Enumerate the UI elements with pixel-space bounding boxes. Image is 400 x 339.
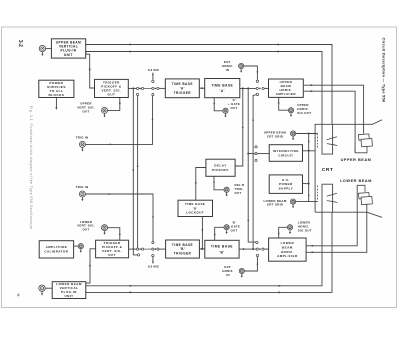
arrowhead	[119, 103, 121, 106]
switch contact source	[152, 87, 154, 89]
arrowhead	[55, 107, 57, 110]
svg-text:LOWER BEAM: LOWER BEAM	[340, 179, 372, 183]
wire delay pickoff to lockout	[196, 168, 206, 201]
wire lower pickoff to switch	[129, 248, 137, 250]
svg-text:OUT: OUT	[108, 253, 116, 257]
CRT lower grid dashed	[317, 186, 319, 202]
wire hv to bus	[303, 183, 309, 185]
arrowhead	[312, 245, 315, 247]
svg-text:OUT: OUT	[235, 191, 242, 195]
wire lower horiz plate 2	[306, 204, 367, 252]
switch contact intensifier	[255, 153, 257, 155]
arrowhead	[202, 87, 205, 89]
block upper beam vertical plug-in unit	[51, 39, 85, 58]
wire 6.3VAC stub upper	[152, 73, 154, 81]
switch contact int lower	[137, 248, 139, 250]
svg-text:TRIGGER: TRIGGER	[174, 252, 192, 256]
arrowhead	[119, 233, 121, 235]
CRT upper electron gun	[358, 134, 369, 140]
svg-text:DELAY: DELAY	[214, 164, 227, 168]
wire A gate out	[214, 98, 223, 111]
wire calibrator to connector	[74, 245, 79, 247]
wire 6.3VAC stub lower	[152, 257, 154, 264]
wire upper horiz plate 2	[303, 91, 355, 153]
arrowhead	[312, 251, 315, 253]
wire switch gap	[139, 87, 142, 89]
switch alt contact line 6.3VAC	[152, 80, 154, 82]
block trigger pickoff lower	[96, 240, 129, 258]
svg-text:TIME BASE: TIME BASE	[211, 245, 233, 249]
svg-text:TIME BASE: TIME BASE	[211, 83, 233, 87]
wire switch to upper horiz amplifier	[264, 87, 268, 89]
svg-text:CRT GRID: CRT GRID	[267, 134, 283, 138]
wire lockout to time base B	[201, 217, 203, 249]
label lower vert sig out	[77, 220, 95, 232]
svg-text:AMPLIFIER: AMPLIFIER	[276, 92, 297, 96]
switch alt contact ext horiz upper	[256, 80, 258, 82]
svg-text:CRT: CRT	[322, 167, 333, 173]
wire switch link lower	[144, 248, 152, 250]
svg-text:AMPLITUDE: AMPLITUDE	[46, 245, 68, 249]
block intensifying circuit	[269, 145, 302, 162]
wire to upper horiz sig out	[279, 97, 289, 110]
svg-text:IN: IN	[226, 68, 230, 72]
label ext horiz in upper	[222, 60, 234, 72]
svg-text:®: ®	[17, 293, 20, 297]
arrowhead	[152, 74, 154, 76]
connector ext horiz in upper	[239, 63, 244, 72]
junction grid bus top	[308, 133, 310, 135]
label upper horiz sig out	[297, 103, 311, 115]
wire switch to lower horiz amplifier	[264, 248, 269, 250]
wire lower pickoff to sig out	[108, 228, 120, 241]
arrowhead	[89, 264, 91, 267]
svg-text:6.3 VAC: 6.3 VAC	[148, 68, 160, 72]
wire time base A to delay pickoff	[235, 88, 243, 166]
wire lower vert signal 1 to CRT	[86, 212, 322, 286]
switch contact horiz lower	[256, 248, 258, 250]
CRT upper grid dashed	[317, 134, 319, 149]
switch alt contact from lower pickoff	[137, 93, 139, 95]
svg-text:Fig. 3-1. Functional block dia: Fig. 3-1. Functional block diagram of th…	[29, 106, 33, 231]
junction sweep B	[252, 248, 254, 250]
arrowhead	[130, 291, 133, 293]
connector ext horiz in lower	[239, 268, 244, 277]
svg-text:INTENSIFYING: INTENSIFYING	[273, 149, 299, 153]
wire switch to intensifying circuit	[257, 153, 269, 155]
wire switch link	[144, 87, 152, 89]
label upper vert sig out	[77, 102, 95, 114]
arrowhead	[278, 232, 280, 234]
arrowhead	[152, 216, 154, 218]
switch contact horiz upper	[256, 87, 258, 89]
arrowhead	[256, 262, 258, 264]
connector cal out	[78, 244, 83, 253]
wire time base B output	[239, 248, 256, 250]
wire sweep A down to lower horiz switch	[248, 88, 255, 242]
svg-text:AMPLIFIER: AMPLIFIER	[277, 254, 298, 258]
svg-text:'A': 'A'	[180, 86, 185, 90]
block delay pickoff	[206, 159, 235, 176]
svg-text:CALIBRATOR: CALIBRATOR	[44, 250, 68, 254]
connector lower beam crt grid	[291, 199, 296, 208]
label lower horiz sig out	[298, 220, 312, 232]
junction to delay pickoff	[242, 87, 244, 89]
block time base B trigger	[166, 240, 200, 258]
svg-text:LOCKOUT: LOCKOUT	[186, 211, 204, 215]
arrowhead	[308, 195, 310, 197]
switch alt contact line lower	[152, 254, 154, 256]
switch alt contact ext trig	[152, 94, 154, 96]
wire B gate out	[215, 227, 224, 240]
wire upper vert signal 1 to CRT	[86, 45, 332, 125]
wire trig in upper riser	[85, 96, 152, 145]
CRT lower horiz plate pair	[357, 185, 365, 192]
wire ext horiz in lower to switch	[244, 257, 257, 271]
block time base B lockout	[178, 200, 213, 216]
wire upper vert signal 2 to CRT	[86, 52, 322, 125]
arrowhead	[201, 229, 203, 231]
connector lower horiz sig out	[287, 225, 292, 234]
switch alt contact from upper pickoff	[137, 254, 139, 256]
junction intensifier bus	[308, 150, 310, 152]
svg-text:SUPPLY: SUPPLY	[279, 186, 294, 190]
block upper beam horiz amplifier	[269, 79, 304, 97]
connector lower plug-in input	[39, 285, 45, 296]
wire plug-in to lower pickoff	[86, 249, 96, 283]
wire connector to plug-in	[46, 48, 52, 50]
arrowhead	[278, 102, 280, 104]
svg-text:OUT: OUT	[230, 106, 237, 110]
CRT lower vertical deflection plates	[322, 184, 333, 212]
wire pickoff to upper vert sig out	[108, 98, 120, 111]
arrowhead	[110, 143, 112, 145]
wire trigger to time base B	[199, 248, 204, 250]
svg-text:TIME BASE: TIME BASE	[172, 243, 193, 247]
arrowhead	[311, 84, 314, 86]
block time base B	[205, 240, 239, 258]
CRT upper plate strokes	[327, 137, 338, 146]
CRT upper horiz plate pair	[355, 146, 367, 153]
wire trig in lower riser	[85, 194, 153, 241]
connector upper horiz sig out	[288, 108, 293, 117]
arrowhead	[308, 140, 310, 142]
block time base A	[205, 79, 240, 98]
svg-text:UPPER BEAM: UPPER BEAM	[341, 158, 372, 162]
CRT lower plate strokes	[327, 193, 338, 202]
label B gate out	[228, 220, 240, 232]
wire crossover upper pickoff to lower switch	[133, 88, 137, 255]
svg-text:PICKOFF: PICKOFF	[212, 168, 229, 172]
arrowhead	[109, 193, 111, 195]
svg-text:CIRCUIT: CIRCUIT	[278, 153, 293, 157]
svg-text:SIG OUT: SIG OUT	[298, 228, 312, 232]
svg-text:CRT GRID: CRT GRID	[267, 203, 283, 207]
connector A gate out	[223, 108, 228, 117]
label ext horiz in lower	[222, 265, 234, 277]
arrowhead	[279, 291, 282, 293]
wire time base A output	[240, 87, 256, 89]
svg-text:TIME BASE: TIME BASE	[172, 82, 193, 86]
wire crt grid bus	[308, 134, 310, 202]
arrowhead	[214, 233, 216, 235]
svg-text:TRIGGER: TRIGGER	[174, 91, 192, 95]
svg-text:OUT: OUT	[82, 228, 89, 232]
svg-text:UNIT: UNIT	[65, 294, 74, 298]
connector trig in lower	[79, 191, 85, 201]
switch alt contact ext trig lower	[152, 242, 154, 244]
arrowhead	[247, 220, 249, 222]
wire intensifying circuit to CRT	[303, 150, 316, 152]
svg-text:TRIG IN: TRIG IN	[76, 185, 89, 189]
wire lower vert signal 2 to CRT	[86, 212, 332, 292]
CRT upper vertical deflection plates	[322, 124, 333, 154]
junction lockout trigger	[201, 248, 203, 250]
block time base A trigger	[165, 79, 199, 98]
arrowhead	[89, 69, 91, 72]
arrowhead	[137, 164, 139, 166]
arrowhead	[130, 43, 133, 45]
connector upper beam crt grid	[291, 131, 296, 140]
label lower beam crt grid	[263, 199, 286, 207]
wire trigger to time base A	[199, 87, 204, 89]
wire lower horiz plate 1	[306, 185, 357, 246]
svg-text:BLOCKS: BLOCKS	[49, 93, 65, 97]
connector upper plug-in input	[39, 45, 45, 56]
arrowhead	[201, 248, 204, 250]
label A gate out	[228, 98, 240, 110]
wire upper grid to CRT	[296, 133, 318, 135]
arrowhead	[279, 285, 282, 287]
label upper beam crt grid	[264, 131, 287, 139]
switch contact source lower	[152, 248, 154, 250]
wire sweep to intensifier switch	[248, 153, 255, 155]
label trig in lower	[76, 185, 89, 189]
switch alt contact ext horiz lower	[256, 254, 258, 256]
connector B gate out	[224, 225, 229, 234]
svg-text:3-2: 3-2	[17, 40, 23, 47]
CRT envelope	[315, 120, 382, 218]
wire upper horiz plate 1	[303, 85, 363, 134]
svg-text:6.3 VAC: 6.3 VAC	[148, 264, 160, 268]
label delayed trig out	[235, 183, 245, 195]
svg-text:'B': 'B'	[180, 247, 185, 251]
wire to lower horiz sig out	[279, 227, 288, 238]
connector trig in upper	[79, 141, 85, 151]
block trigger pickoff upper	[95, 79, 129, 97]
svg-text:Circuit Description — Type 556: Circuit Description — Type 556	[382, 38, 387, 103]
wire delayed trigger out	[214, 176, 224, 190]
arrowhead	[152, 118, 154, 120]
wire power supplies output	[55, 98, 57, 108]
wire sweep B up to upper horiz switch	[253, 95, 256, 249]
svg-text:OUT: OUT	[82, 109, 89, 113]
arrowhead	[213, 103, 215, 105]
block hv power supply	[269, 175, 302, 194]
junction intensifier feed	[247, 153, 249, 155]
switch alt contact sweep A	[256, 241, 258, 243]
wire switch to time base B trigger	[159, 248, 166, 250]
arrowhead	[311, 90, 314, 92]
arrowhead	[213, 182, 215, 184]
svg-text:'B': 'B'	[219, 250, 224, 254]
svg-text:OUT: OUT	[108, 92, 116, 96]
svg-text:OUT: OUT	[230, 228, 237, 232]
label trig in upper	[76, 136, 89, 140]
CRT lower electron gun	[358, 193, 369, 199]
junction hv bus	[308, 183, 310, 185]
arrowhead	[256, 71, 258, 73]
block amplitude calibrator	[39, 241, 73, 258]
connector upper vert sig out	[102, 107, 108, 117]
block power supplies	[39, 80, 74, 97]
block lower beam horiz amplifier	[269, 238, 307, 261]
switch contact int	[137, 87, 139, 89]
arrowhead	[242, 127, 244, 129]
block lower beam vertical plug-in unit	[52, 282, 86, 299]
svg-text:UNIT: UNIT	[64, 53, 73, 57]
wire ext horiz in upper to switch	[244, 66, 258, 80]
wire connector to lower plug-in	[45, 287, 52, 289]
junction crossover at lower trigger wire	[132, 248, 134, 250]
arrowhead	[278, 50, 281, 52]
svg-text:TRIG IN: TRIG IN	[76, 136, 89, 140]
arrowhead	[130, 285, 133, 287]
svg-text:'A': 'A'	[220, 89, 225, 93]
arrowhead	[252, 118, 254, 120]
wire pickoff to trigger switch	[128, 87, 136, 89]
switch alt contact sweep B	[256, 93, 258, 95]
arrowhead	[278, 43, 281, 45]
connector lower vert sig out	[102, 225, 108, 235]
arrowhead	[132, 169, 134, 171]
arrowhead	[152, 260, 154, 262]
junction crossover A	[132, 87, 134, 89]
arrowhead	[195, 182, 197, 184]
arrowhead	[243, 248, 246, 250]
connector delayed trig out	[224, 187, 229, 196]
svg-text:SIG OUT: SIG OUT	[297, 111, 311, 115]
wire switch to time base A trigger	[159, 87, 165, 89]
wire plug-in to trigger pickoff	[86, 52, 95, 89]
wire lower grid to CRT	[296, 201, 318, 203]
svg-text:IN: IN	[226, 273, 230, 277]
junction sweep A down	[247, 87, 249, 89]
arrowhead	[130, 50, 133, 52]
wire crossover lower pickoff to upper switch	[137, 96, 139, 249]
